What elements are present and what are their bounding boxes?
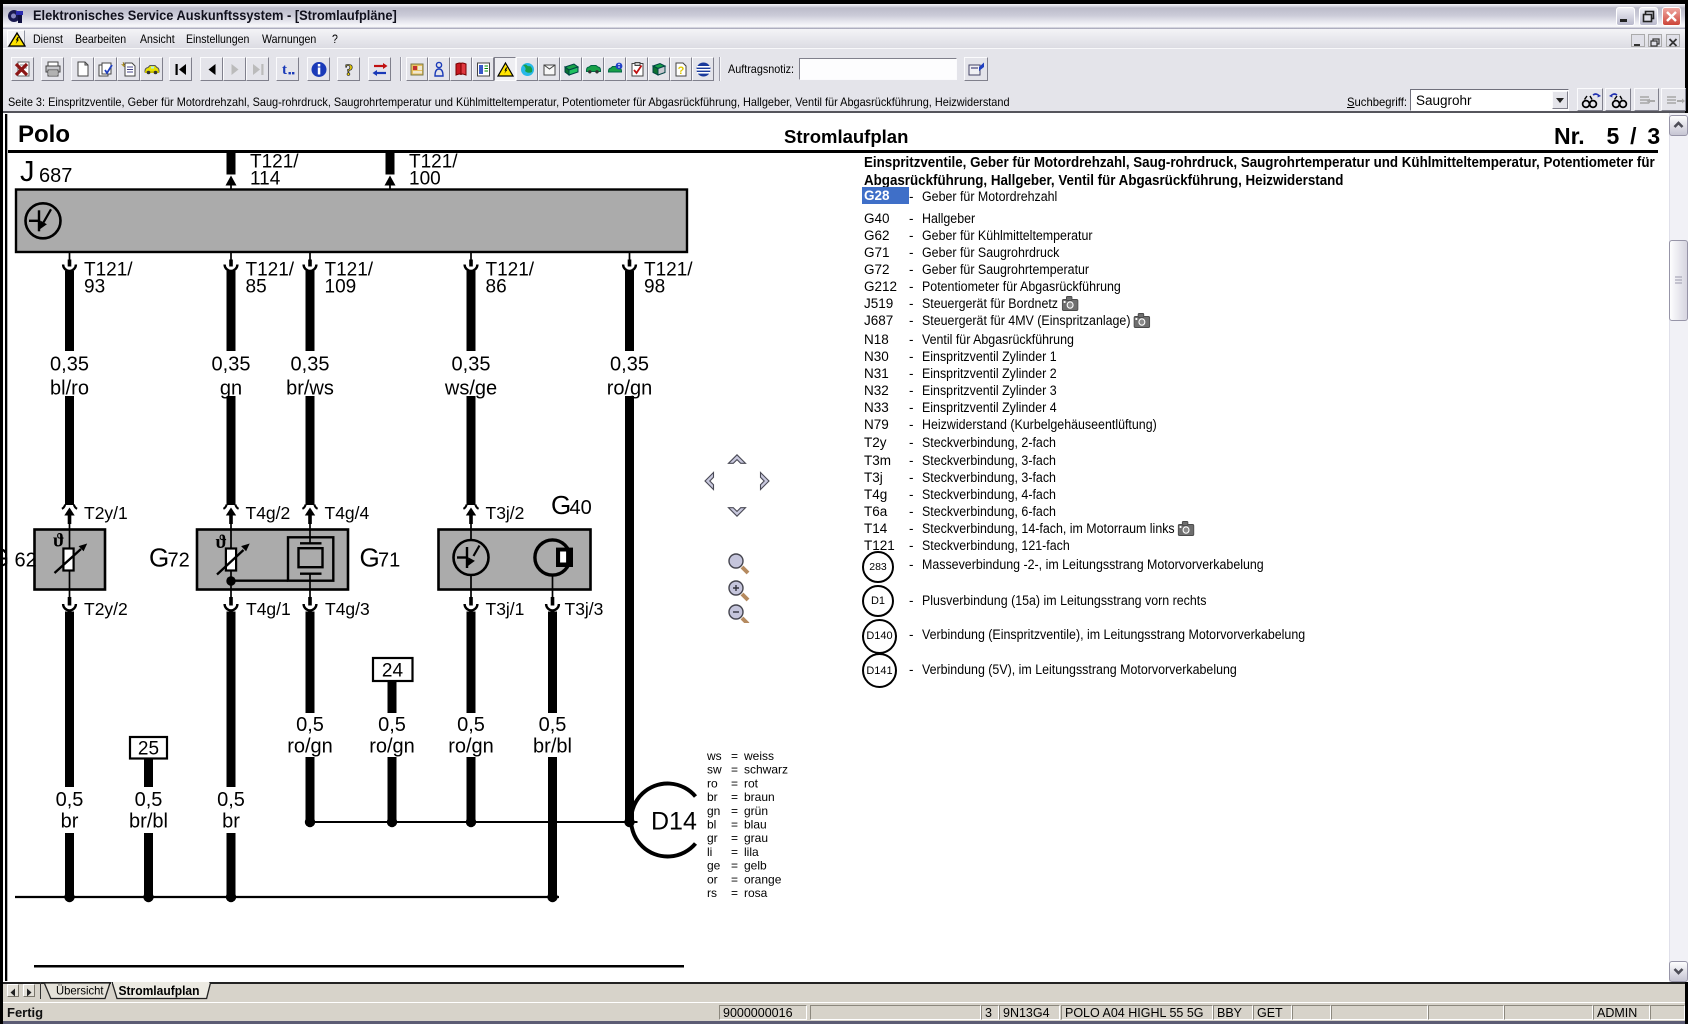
sensor G72 designator <box>149 543 190 573</box>
svg-text:braun: braun <box>744 790 775 804</box>
svg-text:blau: blau <box>744 818 767 832</box>
sensor G72/G71 box (intake temperature / pressure senders) <box>197 530 348 590</box>
control unit J687 designator <box>20 156 72 188</box>
wire segment br ground wire G62 (1) <box>65 612 74 788</box>
terminal T4g/1 <box>225 590 238 611</box>
control unit J687 bus bar <box>16 190 687 253</box>
svg-text:T4g/2: T4g/2 <box>246 503 291 523</box>
svg-text:ro/gn: ro/gn <box>369 736 415 758</box>
wire 0,35 bl/ro lower segment <box>65 396 74 505</box>
svg-text:T2y/2: T2y/2 <box>84 599 128 619</box>
svg-text:114: 114 <box>250 169 281 190</box>
terminal T4g/3 <box>304 590 317 611</box>
wire label 0,5 br/bl <box>129 789 168 833</box>
svg-text:0,5: 0,5 <box>217 789 245 811</box>
thermistor symbol in G62 <box>53 531 87 574</box>
wire segment br ground wire G62 (2) <box>65 833 74 897</box>
svg-text:orange: orange <box>744 872 782 886</box>
wire connector D14 <box>631 783 697 856</box>
wire label 0,5 br <box>217 789 245 833</box>
wire 0,35 gn lower segment <box>227 396 236 505</box>
terminal label T2y/2 <box>84 599 128 619</box>
svg-text:br: br <box>222 811 240 833</box>
wire 0,35 ro/gn lower segment <box>625 396 634 822</box>
right legend <box>864 154 1576 189</box>
svg-text:G: G <box>551 490 571 520</box>
svg-text:ge: ge <box>707 859 721 873</box>
svg-text:schwarz: schwarz <box>744 763 788 777</box>
wire 0,35 ws/ge lower segment <box>467 396 476 505</box>
svg-text:0,35: 0,35 <box>610 354 649 376</box>
terminal T121/93 <box>63 252 76 271</box>
svg-text:gr: gr <box>707 831 718 845</box>
svg-text:72: 72 <box>168 550 190 572</box>
wire label 0,5 ro/gn <box>287 714 333 758</box>
sensor G40 box (Hall sender) <box>439 530 591 590</box>
svg-text:ro: ro <box>707 776 718 790</box>
svg-text:0,5: 0,5 <box>378 714 406 736</box>
junction node at x=307 on D14 line <box>305 817 315 827</box>
svg-text:0,35: 0,35 <box>212 354 251 376</box>
terminal T121/86 <box>465 252 478 271</box>
terminal label T121/100 <box>409 152 458 190</box>
wire segment ro/gn wire from point 24 (2) <box>388 757 397 822</box>
wire label 0,35 bl/ro <box>50 354 89 400</box>
junction node at x=468 on D14 line <box>466 817 476 827</box>
ground point 25 box <box>130 737 167 760</box>
wire label 0,35 ws/ge <box>444 354 497 400</box>
wire 0,35 bl/ro upper segment <box>65 271 74 351</box>
svg-text:T4g/4: T4g/4 <box>325 503 370 523</box>
wire segment br ground wire G72 (1) <box>227 612 236 788</box>
svg-text:T2y/1: T2y/1 <box>84 503 128 523</box>
terminal label T121/114 <box>250 152 299 190</box>
wire 0,35 br/ws lower segment <box>306 396 315 505</box>
wire label 0,5 br <box>56 789 84 833</box>
terminal label T4g/2 <box>246 503 291 523</box>
terminal T121/98 <box>623 252 636 271</box>
internal wire G72 to G71 <box>231 580 288 582</box>
svg-text:rosa: rosa <box>744 886 768 900</box>
svg-text:D14: D14 <box>651 808 697 836</box>
svg-text:sw: sw <box>707 763 722 777</box>
terminal T121/109 <box>304 252 317 271</box>
terminal T3j/1 <box>465 590 478 611</box>
terminal T4g/4 <box>302 505 317 531</box>
ground point 24 box <box>373 658 413 682</box>
junction node at x=549.5 on ground rail <box>547 892 557 902</box>
terminal label T3j/2 <box>486 503 525 523</box>
svg-text:T3j/3: T3j/3 <box>565 599 604 619</box>
wire label 0,5 ro/gn <box>448 714 494 758</box>
svg-text:71: 71 <box>378 550 400 572</box>
terminal label T2y/1 <box>84 503 128 523</box>
junction node at x=228 on ground rail <box>226 892 236 902</box>
svg-text:86: 86 <box>486 277 507 298</box>
svg-text:0,35: 0,35 <box>291 354 330 376</box>
svg-text:=: = <box>731 804 738 818</box>
svg-text:=: = <box>731 886 738 900</box>
junction node at x=389 on D14 line <box>387 817 397 827</box>
Hall element symbol in G40 <box>535 540 573 589</box>
terminal label T4g/1 <box>246 599 291 619</box>
svg-text:rot: rot <box>744 776 759 790</box>
svg-text:=: = <box>731 749 738 763</box>
svg-text:grün: grün <box>744 804 768 818</box>
terminal label T121/86 <box>486 260 535 298</box>
terminal label T121/93 <box>84 260 133 298</box>
wire segment ro/gn wire T4g/3 (2) <box>306 757 315 822</box>
svg-text:109: 109 <box>325 277 357 298</box>
svg-text:?: ? <box>678 65 685 77</box>
electronics symbol in G40 <box>454 531 489 589</box>
terminal T3j/2 <box>463 505 478 531</box>
electronics symbol in J687 <box>26 203 61 238</box>
svg-text:0,5: 0,5 <box>56 789 84 811</box>
svg-text:lila: lila <box>744 845 759 859</box>
wire label 0,35 ro/gn <box>607 354 653 400</box>
wire label 0,35 br/ws <box>286 354 334 400</box>
svg-text:687: 687 <box>39 165 72 187</box>
svg-text:ϑ: ϑ <box>53 531 64 552</box>
wire colour legend <box>706 749 788 900</box>
svg-text:T3j/2: T3j/2 <box>486 503 525 523</box>
wire through G62 <box>69 531 71 589</box>
wire segment ro/gn wire T3j/1 (1) <box>467 612 476 714</box>
terminal label T121/109 <box>325 260 374 298</box>
svg-text:?: ? <box>345 61 354 78</box>
schematic drawing <box>3 113 833 982</box>
schematic page bottom frame <box>34 965 684 968</box>
svg-text:0,5: 0,5 <box>135 789 163 811</box>
wire 0,35 ro/gn upper segment <box>625 271 634 351</box>
terminal T2y/1 <box>62 505 77 531</box>
wire segment br ground wire G72 (2) <box>227 833 236 897</box>
svg-text:G: G <box>3 543 9 573</box>
svg-text:24: 24 <box>382 661 404 682</box>
wire segment br/bl wire T3j/3 (2) <box>548 757 557 897</box>
sensor G40 designator <box>551 490 592 520</box>
svg-text:Übersicht: Übersicht <box>56 984 104 998</box>
terminal T3j/3 <box>546 590 559 611</box>
svg-text:G: G <box>360 543 380 573</box>
svg-text:=: = <box>731 831 738 845</box>
terminal label T4g/3 <box>325 599 370 619</box>
svg-text:br: br <box>61 811 79 833</box>
svg-text:grau: grau <box>744 831 768 845</box>
connection line to D14 <box>310 821 638 823</box>
svg-text:t: t <box>282 62 287 78</box>
wire 0,35 ws/ge upper segment <box>467 271 476 351</box>
svg-text:G: G <box>149 543 169 573</box>
terminal label T3j/1 <box>486 599 525 619</box>
svg-text:62: 62 <box>15 550 37 572</box>
sensor G71 designator <box>360 543 401 573</box>
wire to terminal T121/114 (top) <box>226 153 237 191</box>
wire segment ro/gn wire T3j/1 (2) <box>467 757 476 822</box>
svg-text:gn: gn <box>707 804 720 818</box>
wire label 0,5 br/bl <box>533 714 572 758</box>
svg-text:bl: bl <box>707 818 716 832</box>
svg-text:0,5: 0,5 <box>296 714 324 736</box>
wire label 0,5 ro/gn <box>369 714 415 758</box>
wire segment ro/gn wire T4g/3 (1) <box>306 612 315 714</box>
wire segment ro/gn wire from point 24 (1) <box>388 681 397 713</box>
svg-text:=: = <box>731 818 738 832</box>
wire label 0,35 gn <box>212 354 251 400</box>
svg-text:or: or <box>707 872 718 886</box>
mdi child buttons <box>1631 34 1645 47</box>
svg-text:ws: ws <box>706 749 722 763</box>
svg-text:rs: rs <box>707 886 717 900</box>
svg-text:T3j/1: T3j/1 <box>486 599 525 619</box>
svg-text:Stromlaufplan: Stromlaufplan <box>119 984 200 998</box>
svg-text:=: = <box>731 790 738 804</box>
thermistor symbol in G72 <box>216 532 250 575</box>
svg-text:weiss: weiss <box>743 749 774 763</box>
terminal label T4g/4 <box>325 503 370 523</box>
junction node at x=626.5 on D14 line <box>624 817 634 827</box>
sensor G62 box (coolant temperature sender) <box>35 530 106 590</box>
wire segment ground wire from point 25 (2) <box>144 833 153 897</box>
terminal label T3j/3 <box>565 599 604 619</box>
wire through G72 <box>230 531 232 589</box>
svg-text:40: 40 <box>570 497 592 519</box>
svg-text:gelb: gelb <box>744 859 767 873</box>
terminal T121/85 <box>225 252 238 271</box>
pressure sensor symbol G71 <box>288 531 333 589</box>
svg-text:98: 98 <box>644 277 665 298</box>
ground rail <box>15 896 559 898</box>
svg-text:0,5: 0,5 <box>457 714 485 736</box>
schematic page left frame <box>5 114 7 981</box>
svg-text:0,35: 0,35 <box>50 354 89 376</box>
svg-text:0,5: 0,5 <box>539 714 567 736</box>
svg-text:ro/gn: ro/gn <box>287 736 333 758</box>
terminal T4g/2 <box>223 505 238 531</box>
junction node at x=145.5 on ground rail <box>143 892 153 902</box>
svg-text:85: 85 <box>246 277 267 298</box>
svg-text:ro/gn: ro/gn <box>448 736 494 758</box>
svg-text:T4g/1: T4g/1 <box>246 599 291 619</box>
svg-text:J: J <box>20 156 35 188</box>
junction node at x=66.5 on ground rail <box>64 892 74 902</box>
terminal T2y/2 <box>63 590 76 611</box>
svg-text:=: = <box>731 776 738 790</box>
wire 0,35 br/ws upper segment <box>306 271 315 351</box>
wire 0,35 gn upper segment <box>227 271 236 351</box>
sensor G62 designator (clipped) <box>0 543 37 573</box>
header row <box>18 121 70 149</box>
terminal label T121/98 <box>644 260 693 298</box>
wire to terminal T121/100 (top) <box>385 153 396 191</box>
junction dot in G72 box <box>226 576 235 585</box>
svg-text:93: 93 <box>84 277 105 298</box>
svg-text:=: = <box>731 763 738 777</box>
svg-text:br/bl: br/bl <box>533 736 572 758</box>
svg-text:=: = <box>731 845 738 859</box>
svg-text:0,35: 0,35 <box>452 354 491 376</box>
svg-text:25: 25 <box>138 739 159 760</box>
svg-text:T4g/3: T4g/3 <box>325 599 370 619</box>
svg-text:100: 100 <box>409 169 441 190</box>
svg-text:br: br <box>707 790 718 804</box>
svg-text:li: li <box>707 845 712 859</box>
svg-text:ϑ: ϑ <box>216 532 227 553</box>
terminal label T121/85 <box>246 260 295 298</box>
wire segment ground wire from point 25 (1) <box>144 759 153 788</box>
wire segment br/bl wire T3j/3 (1) <box>548 612 557 714</box>
svg-text:=: = <box>731 872 738 886</box>
svg-text:=: = <box>731 859 738 873</box>
svg-text:br/bl: br/bl <box>129 811 168 833</box>
